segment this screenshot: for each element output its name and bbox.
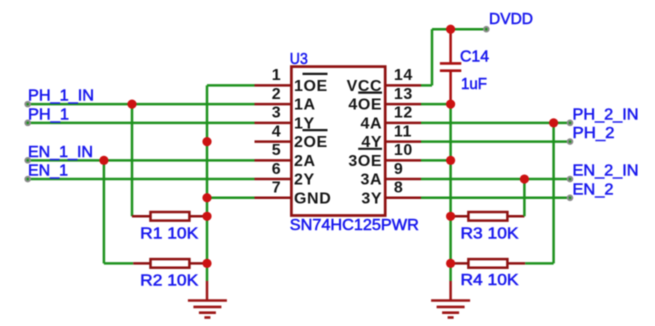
svg-text:1A: 1A	[294, 97, 316, 114]
svg-text:14: 14	[394, 67, 413, 84]
svg-text:9: 9	[394, 161, 404, 178]
svg-text:R4 10K: R4 10K	[461, 272, 520, 289]
svg-text:11: 11	[394, 123, 412, 140]
svg-text:EN_2_IN: EN_2_IN	[573, 163, 639, 180]
svg-text:1OE: 1OE	[294, 78, 328, 95]
svg-text:R2 10K: R2 10K	[140, 273, 199, 290]
svg-text:DVDD: DVDD	[489, 11, 533, 28]
svg-text:8: 8	[394, 179, 404, 196]
svg-text:12: 12	[394, 105, 413, 122]
svg-text:U3: U3	[290, 51, 308, 68]
svg-text:5: 5	[272, 142, 282, 159]
svg-text:2Y: 2Y	[294, 172, 315, 189]
svg-text:13: 13	[394, 86, 413, 103]
svg-text:PH_1: PH_1	[28, 106, 69, 123]
svg-text:3: 3	[272, 105, 282, 122]
svg-text:3OE: 3OE	[348, 153, 382, 170]
svg-text:R3 10K: R3 10K	[461, 225, 520, 242]
svg-text:PH_2: PH_2	[573, 125, 615, 142]
svg-text:PH_2_IN: PH_2_IN	[573, 106, 639, 123]
svg-text:EN_1_IN: EN_1_IN	[28, 144, 93, 161]
svg-text:4A: 4A	[361, 115, 383, 132]
svg-text:4OE: 4OE	[348, 97, 382, 114]
svg-text:1uF: 1uF	[461, 76, 487, 93]
svg-text:2OE: 2OE	[294, 134, 328, 151]
svg-text:R1 10K: R1 10K	[140, 226, 199, 243]
svg-text:2: 2	[272, 86, 282, 103]
svg-text:GND: GND	[294, 190, 331, 207]
svg-text:EN_1: EN_1	[28, 163, 68, 180]
svg-text:7: 7	[272, 179, 282, 196]
svg-text:EN_2: EN_2	[573, 181, 614, 198]
svg-text:2A: 2A	[294, 153, 316, 170]
svg-text:PH_1_IN: PH_1_IN	[28, 88, 94, 105]
svg-text:10: 10	[394, 142, 413, 159]
svg-text:3Y: 3Y	[361, 190, 382, 207]
svg-text:SN74HC125PWR: SN74HC125PWR	[290, 217, 419, 234]
svg-text:4: 4	[272, 123, 282, 140]
svg-text:C14: C14	[460, 49, 489, 66]
svg-text:6: 6	[272, 161, 282, 178]
svg-text:1: 1	[272, 67, 282, 84]
svg-text:3A: 3A	[361, 172, 383, 189]
